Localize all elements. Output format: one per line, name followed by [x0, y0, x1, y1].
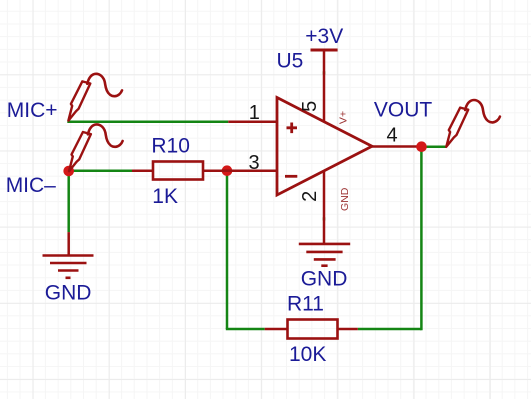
svg-text:V+: V+ [338, 111, 350, 124]
ground symbol right [299, 244, 350, 266]
svg-text:U5: U5 [277, 50, 304, 73]
resistor R10 right lead [203, 169, 227, 172]
power symbol +3V bar [311, 49, 338, 52]
terminal pigtail VOUT [446, 100, 500, 147]
pin 4 wire of U5 [372, 145, 422, 148]
wire over node 3 [221, 169, 234, 172]
wire bottom left horizontal to R11 [226, 328, 265, 331]
wire MIC- net down to ground [67, 171, 70, 232]
wire bottom right horizontal from R11 [358, 328, 422, 331]
wire VOUT vertical feedback [420, 147, 423, 331]
wire stub on V+ pin [323, 71, 326, 74]
svg-text:+3V: +3V [305, 25, 343, 48]
wire node3 vertical down [226, 171, 229, 329]
pin 2 wire of U5 [323, 171, 326, 244]
op-amp plus input marker [287, 123, 298, 134]
wire VOUT to terminal [422, 145, 447, 148]
svg-text:R11: R11 [287, 293, 324, 316]
svg-text:GND: GND [45, 282, 92, 305]
svg-text:GND: GND [301, 268, 348, 291]
svg-text:1: 1 [249, 102, 260, 124]
junction node VOUT [416, 141, 427, 152]
junction node MIC- [63, 166, 74, 177]
terminal pigtail MIC- [69, 124, 123, 171]
junction node 3 [222, 165, 233, 176]
resistor R10 body [153, 162, 203, 180]
pin 5 wire of U5 [323, 50, 326, 122]
wire MIC+ net horizontal [67, 121, 228, 124]
svg-text:10K: 10K [289, 343, 326, 366]
op-amp U1 triangle body [277, 98, 372, 196]
resistor R11 right lead [338, 328, 358, 331]
svg-text:MIC–: MIC– [6, 174, 56, 197]
op-amp minus input marker [285, 175, 297, 178]
svg-text:2: 2 [299, 191, 321, 202]
svg-text:MIC+: MIC+ [7, 99, 58, 122]
svg-text:5: 5 [299, 101, 321, 112]
wire MIC- net horizontal to R10 [69, 169, 132, 172]
svg-text:R10: R10 [151, 135, 190, 158]
pin 1 wire of U5 [228, 121, 277, 124]
svg-text:VOUT: VOUT [374, 99, 433, 122]
ground stub left [67, 232, 70, 255]
pin 3 wire of U5 [221, 169, 277, 172]
svg-text:3: 3 [249, 152, 260, 174]
terminal pigtail MIC+ [68, 74, 122, 121]
resistor R11 body [288, 320, 338, 339]
svg-text:4: 4 [386, 124, 397, 146]
svg-text:GND: GND [339, 187, 351, 211]
resistor R11 left lead [265, 328, 288, 331]
svg-text:1K: 1K [152, 185, 178, 208]
resistor R10 left lead [132, 169, 153, 172]
wire stub on GND pin [323, 217, 326, 220]
ground symbol left [43, 256, 94, 278]
